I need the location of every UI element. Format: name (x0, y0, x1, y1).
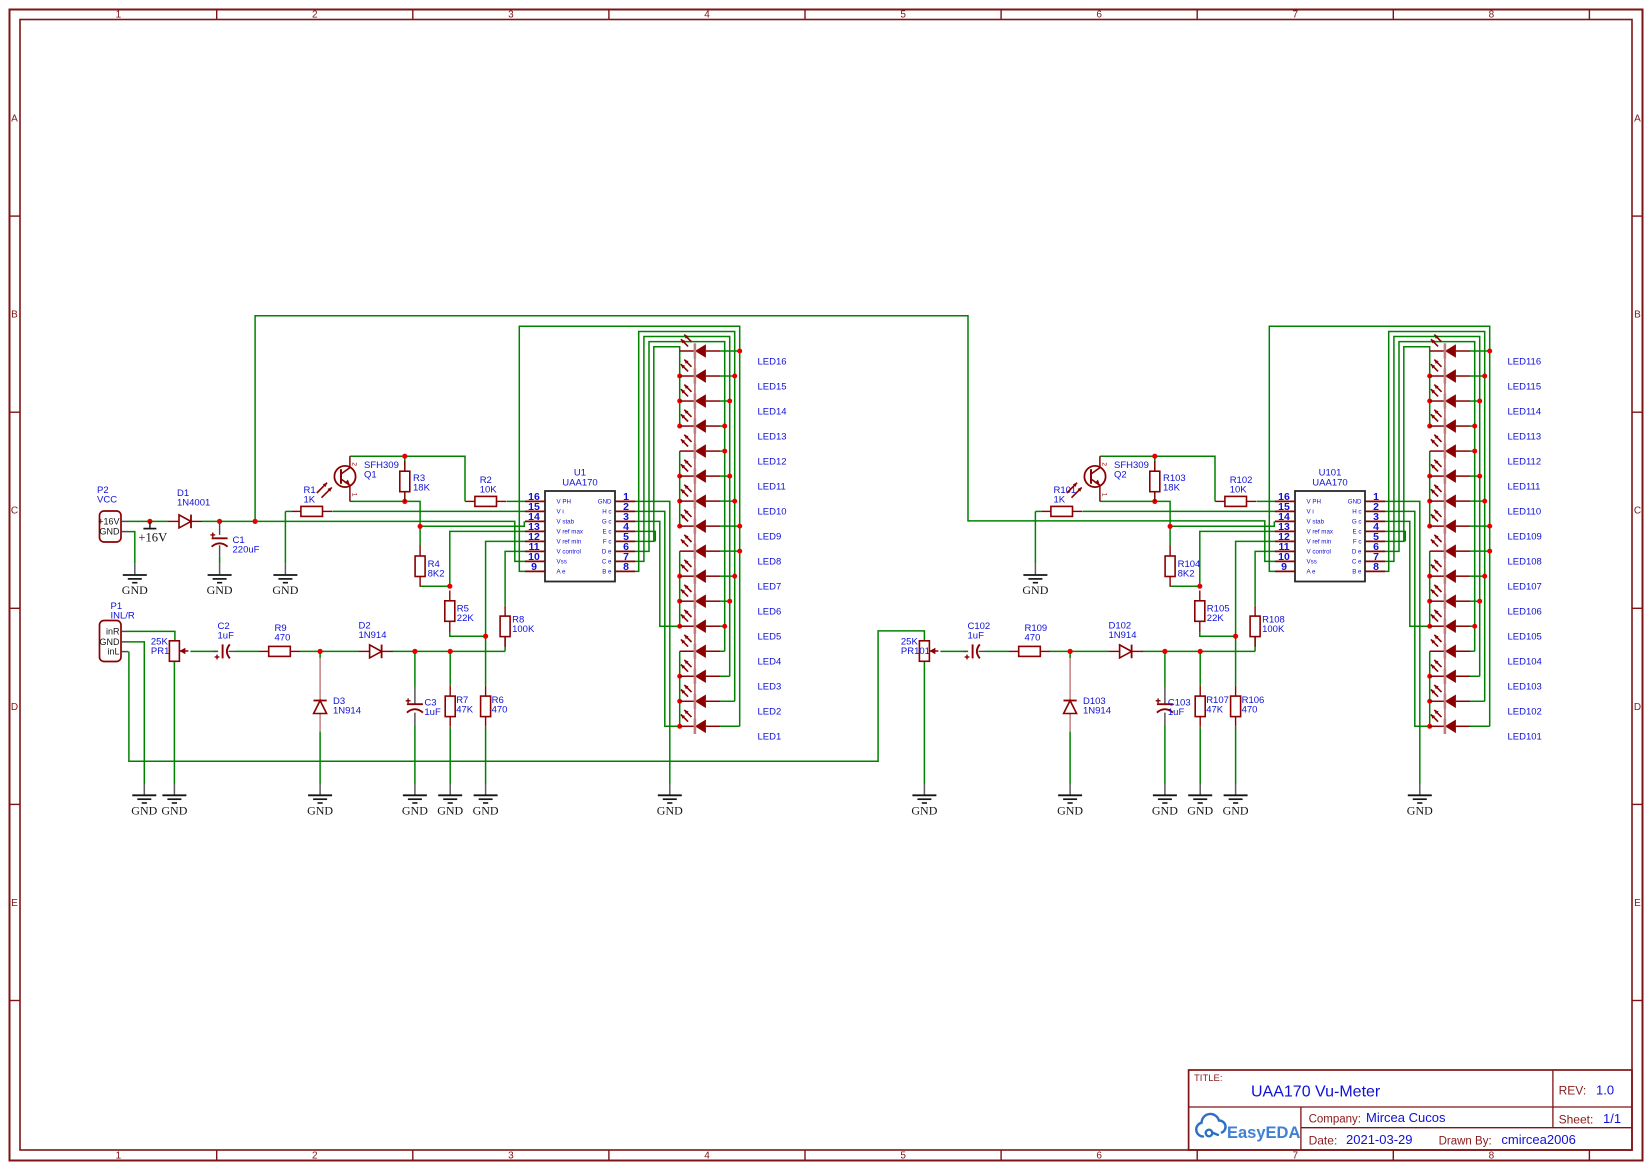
resistor R2 10K (465, 500, 475, 502)
ground (1224, 784, 1248, 803)
wire U pin 1 to ground (1385, 501, 1420, 784)
svg-text:V i: V i (1307, 509, 1314, 516)
svg-text:LED105: LED105 (1508, 632, 1542, 643)
wire to R4 top (419, 526, 421, 546)
LED LED111 (1430, 475, 1445, 477)
svg-text:4: 4 (704, 1151, 710, 1162)
svg-text:1uF: 1uF (968, 631, 985, 642)
svg-text:H c: H c (602, 509, 611, 516)
wire R8 bottom pin (504, 636, 506, 651)
svg-text:8: 8 (1373, 561, 1379, 573)
wire C3 to ground (414, 726, 416, 784)
svg-text:LED9: LED9 (758, 532, 782, 543)
LED chain LED1-LED16 (694, 343, 696, 734)
wire R105 bottom elbow (1200, 631, 1236, 636)
IC U101 UAA170 (1295, 491, 1365, 582)
wire P1 inL to PR101 (129, 631, 925, 761)
ground (438, 784, 462, 803)
ground (1188, 784, 1212, 803)
LED LED9 (680, 525, 695, 527)
connector P1 INL/R (100, 621, 122, 662)
wire C103 to ground (1164, 726, 1166, 784)
svg-text:1: 1 (116, 10, 122, 21)
svg-text:LED14: LED14 (758, 406, 787, 417)
wire to R104 top (1169, 526, 1171, 546)
svg-text:8: 8 (623, 561, 629, 573)
LED LED104 (1430, 650, 1445, 652)
svg-text:1N914: 1N914 (1083, 706, 1111, 717)
resistor R101 1K (1041, 510, 1051, 512)
svg-text:GND: GND (161, 804, 187, 818)
wire R1 left elbow (285, 510, 291, 512)
LED LED11 (680, 475, 695, 477)
wire U pin 3 drop (635, 521, 680, 626)
svg-text:D: D (11, 702, 18, 713)
svg-text:LED113: LED113 (1508, 431, 1542, 442)
svg-text:VCC: VCC (97, 495, 117, 506)
LED LED105 (1430, 625, 1445, 627)
ground (273, 564, 297, 583)
svg-text:V PH: V PH (557, 499, 571, 506)
ground (658, 784, 682, 803)
LED LED14 (680, 400, 695, 402)
wire C102 to R109 (985, 650, 1009, 652)
wire D102 to R108 bottom (1142, 650, 1256, 652)
svg-text:9: 9 (1281, 561, 1287, 573)
svg-text:1K: 1K (304, 495, 316, 506)
svg-text:LED1: LED1 (758, 732, 782, 743)
LED LED109 (1430, 525, 1445, 527)
svg-text:6: 6 (1096, 1151, 1102, 1162)
wire junction to D103 (1069, 651, 1071, 658)
svg-text:GND: GND (473, 804, 499, 818)
svg-text:LED116: LED116 (1508, 356, 1542, 367)
svg-text:C: C (11, 506, 18, 517)
svg-text:LED2: LED2 (758, 707, 782, 718)
LED LED114 (1430, 400, 1445, 402)
LED LED16 (680, 350, 695, 352)
svg-text:F c: F c (1353, 539, 1362, 546)
wire junction to R107 (1199, 651, 1201, 685)
wire U pin 6 bus D (635, 342, 725, 652)
wire R104 bottom elbow (1170, 585, 1200, 587)
LED LED101 (1430, 725, 1445, 727)
svg-text:GND: GND (131, 804, 157, 818)
wire R109 to D102 (1050, 650, 1109, 652)
svg-text:B: B (1634, 310, 1641, 321)
svg-text:GND: GND (1223, 804, 1249, 818)
svg-text:Q1: Q1 (364, 469, 377, 480)
LED LED108 (1430, 550, 1445, 552)
wire U pin 5 to LED cathode column (635, 347, 680, 542)
wire R6 to ground (485, 727, 487, 784)
LED LED1 (680, 725, 695, 727)
svg-text:1: 1 (351, 493, 358, 497)
svg-text:1K: 1K (1054, 495, 1066, 506)
LED LED106 (1430, 600, 1445, 602)
svg-text:G c: G c (602, 519, 612, 526)
LED LED107 (1430, 575, 1445, 577)
svg-text:A: A (11, 113, 18, 124)
svg-text:UAA170: UAA170 (1312, 478, 1347, 489)
svg-text:100K: 100K (512, 624, 535, 635)
capacitor C3 1uF (407, 703, 423, 705)
diode D2 1N914 (359, 650, 370, 652)
ground (403, 784, 427, 803)
wire R4/R5 junction to U pin 13 (450, 531, 525, 586)
wires LED anode stubs (720, 725, 740, 727)
LED LED12 (680, 450, 695, 452)
svg-text:LED115: LED115 (1508, 381, 1542, 392)
wire U pin 2 drop (1385, 511, 1430, 726)
wire R5/R6 junction to U pin 12 (1236, 541, 1275, 636)
svg-text:LED101: LED101 (1508, 732, 1542, 743)
wire junction to R7 (449, 651, 451, 685)
svg-text:LED111: LED111 (1508, 482, 1541, 493)
svg-text:LED112: LED112 (1508, 456, 1542, 467)
svg-text:1uF: 1uF (218, 631, 235, 642)
wire PR1 wiper to C2 (190, 650, 218, 652)
LED LED5 (680, 625, 695, 627)
ground (474, 784, 498, 803)
svg-text:7: 7 (1293, 10, 1299, 21)
wire D2 to R8 bottom (392, 650, 506, 652)
svg-text:LED106: LED106 (1508, 607, 1542, 618)
IC U1 UAA170 (545, 491, 615, 582)
LED LED115 (1430, 375, 1445, 377)
wire U pin 3 drop (1385, 521, 1430, 626)
svg-text:TITLE:: TITLE: (1194, 1073, 1223, 1084)
svg-text:H c: H c (1352, 509, 1361, 516)
svg-text:5: 5 (900, 10, 906, 21)
svg-text:8: 8 (1489, 10, 1495, 21)
svg-text:18K: 18K (413, 483, 431, 494)
capacitor C1 220uF (212, 537, 228, 539)
svg-text:UAA170 Vu-Meter: UAA170 Vu-Meter (1251, 1084, 1381, 1101)
LED LED116 (1430, 350, 1445, 352)
wire R4/R5 junction to U pin 13 (1200, 531, 1275, 586)
LED LED110 (1430, 500, 1445, 502)
wire U pin 9 bus A (519, 326, 739, 726)
LED LED102 (1430, 700, 1445, 702)
svg-text:1uF: 1uF (1168, 707, 1185, 718)
wire R2 to pin 16 (507, 500, 525, 502)
svg-text:470: 470 (275, 633, 291, 644)
svg-text:E: E (11, 898, 18, 909)
wire R7 to ground (449, 727, 451, 784)
svg-text:V i: V i (557, 509, 564, 516)
resistor R109 470 (1009, 650, 1019, 652)
svg-text:GND: GND (657, 804, 683, 818)
svg-text:100K: 100K (1262, 624, 1285, 635)
svg-text:1N4001: 1N4001 (177, 498, 210, 509)
svg-text:V control: V control (557, 549, 581, 556)
svg-text:LED103: LED103 (1508, 682, 1542, 693)
svg-text:V control: V control (1307, 549, 1331, 556)
svg-text:LED4: LED4 (758, 657, 782, 668)
svg-text:GND: GND (1022, 583, 1048, 597)
wire +16V rail to U1 pin 10 (202, 521, 525, 561)
svg-text:2: 2 (312, 10, 318, 21)
LED LED8 (680, 550, 695, 552)
wire LED column segment (1429, 651, 1431, 726)
resistor R5 22K (449, 591, 451, 601)
svg-text:LED12: LED12 (758, 456, 787, 467)
svg-text:4: 4 (704, 10, 710, 21)
svg-text:470: 470 (1242, 705, 1258, 716)
svg-text:GND: GND (1187, 804, 1213, 818)
wire P2 +16V to D1 (129, 520, 169, 522)
capacitor C2 1uF (222, 644, 224, 658)
svg-text:D: D (1634, 702, 1641, 713)
svg-text:LED7: LED7 (758, 582, 782, 593)
wire P2 GND (129, 532, 135, 564)
LED LED10 (680, 500, 695, 502)
svg-text:cmircea2006: cmircea2006 (1501, 1132, 1575, 1147)
wire junction to D3 (319, 651, 321, 658)
svg-text:G c: G c (1352, 519, 1362, 526)
wire to R106 top (1235, 636, 1237, 686)
svg-text:3: 3 (508, 1151, 514, 1162)
svg-text:B e: B e (602, 569, 612, 576)
resistor R104 8K2 (1169, 546, 1171, 556)
svg-text:LED6: LED6 (758, 607, 782, 618)
svg-text:Sheet:: Sheet: (1559, 1113, 1594, 1127)
svg-text:GND: GND (272, 583, 298, 597)
wire R101 left elbow (1035, 510, 1041, 512)
wire Q2 collector to R102 (1100, 456, 1215, 501)
svg-text:GND: GND (122, 583, 148, 597)
svg-text:PR101: PR101 (901, 646, 930, 657)
svg-text:8K2: 8K2 (428, 569, 445, 580)
svg-text:Q2: Q2 (1114, 469, 1127, 480)
svg-text:1uF: 1uF (424, 707, 441, 718)
wire Q1 collector to R2 (350, 456, 465, 501)
svg-text:LED114: LED114 (1508, 406, 1542, 417)
svg-text:Vss: Vss (1307, 559, 1317, 566)
svg-text:18K: 18K (1163, 483, 1181, 494)
svg-text:B e: B e (1352, 569, 1362, 576)
svg-text:LED108: LED108 (1508, 557, 1542, 568)
svg-text:470: 470 (492, 705, 508, 716)
svg-text:A e: A e (557, 569, 567, 576)
wire R9 to D2 (300, 650, 359, 652)
svg-text:D e: D e (1352, 549, 1362, 556)
svg-text:GND: GND (911, 804, 937, 818)
wire LED column segment (679, 451, 681, 526)
svg-text:+16V: +16V (98, 517, 119, 527)
svg-text:22K: 22K (1207, 613, 1225, 624)
svg-text:1: 1 (116, 1151, 122, 1162)
LED LED2 (680, 700, 695, 702)
svg-text:LED16: LED16 (758, 356, 787, 367)
wire U pin 4 stub (635, 531, 655, 541)
svg-text:8K2: 8K2 (1178, 569, 1195, 580)
svg-text:6: 6 (1096, 10, 1102, 21)
diode D103 1N914 (1064, 700, 1077, 702)
svg-text:LED13: LED13 (758, 431, 787, 442)
resistor R6 470 (485, 686, 487, 696)
wire R101 to ground (1034, 511, 1036, 563)
svg-text:inL: inL (107, 647, 119, 657)
EasyEDA logo (1196, 1114, 1225, 1137)
wire +16V feed to right channel U101 pin 10 (255, 316, 1275, 562)
wire U pin 11 to R8 (505, 551, 525, 605)
ground (1153, 784, 1177, 803)
resistor R9 470 (259, 650, 269, 652)
wire R1 to U pin 15 (333, 510, 526, 512)
resistor R107 47K (1199, 686, 1201, 696)
wire C2 to R9 (235, 650, 259, 652)
svg-text:2: 2 (312, 1151, 318, 1162)
wire LED column segment (679, 551, 681, 626)
diode D1 1N4001 (168, 520, 179, 522)
svg-text:E c: E c (603, 529, 612, 536)
svg-text:C e: C e (602, 559, 612, 566)
LED LED103 (1430, 675, 1445, 677)
net flag +16V (149, 521, 151, 528)
C1 top pin (219, 521, 221, 535)
ground (162, 784, 186, 803)
wire R101 to U pin 15 (1083, 510, 1276, 512)
wire junction to C3 (414, 651, 416, 686)
wire U pin 1 to ground (635, 501, 670, 784)
resistor R4 8K2 (419, 546, 421, 556)
LED LED15 (680, 375, 695, 377)
svg-text:E c: E c (1353, 529, 1362, 536)
ground (123, 564, 147, 583)
svg-text:Mircea Cucos: Mircea Cucos (1366, 1110, 1446, 1125)
svg-text:A e: A e (1307, 569, 1317, 576)
resistor R108 100K (1254, 606, 1256, 616)
wire R5/R6 junction to U pin 12 (486, 541, 525, 636)
svg-text:B: B (11, 310, 18, 321)
svg-text:LED102: LED102 (1508, 707, 1542, 718)
svg-text:F c: F c (603, 539, 612, 546)
svg-text:GND: GND (402, 804, 428, 818)
resistor R103 18K (1154, 461, 1156, 471)
wire PR101 bottom to ground (923, 661, 925, 784)
svg-text:2: 2 (1101, 462, 1108, 466)
svg-text:1.0: 1.0 (1596, 1083, 1614, 1098)
resistor R7 47K (449, 686, 451, 696)
svg-text:47K: 47K (456, 705, 474, 716)
C1 bottom pin (219, 545, 221, 556)
wire U pin 9 bus A (1269, 326, 1489, 726)
wire U pin 4 stub (1385, 531, 1405, 541)
ground (1023, 564, 1047, 583)
svg-text:9: 9 (531, 561, 537, 573)
svg-text:10K: 10K (480, 485, 498, 496)
wire P1 GND pin to ground (129, 642, 145, 784)
svg-text:LED104: LED104 (1508, 657, 1542, 668)
resistor R8 100K (504, 606, 506, 616)
svg-text:GND: GND (307, 804, 333, 818)
svg-text:LED107: LED107 (1508, 582, 1542, 593)
svg-text:INL/R: INL/R (111, 611, 135, 622)
resistor R105 22K (1199, 591, 1201, 601)
svg-text:1N914: 1N914 (333, 706, 361, 717)
svg-text:8: 8 (1489, 1151, 1495, 1162)
svg-text:PR1: PR1 (151, 646, 169, 657)
connector P2 VCC (100, 511, 122, 542)
svg-text:220uF: 220uF (233, 545, 260, 556)
ground (132, 784, 156, 803)
resistor R3 18K (404, 461, 406, 471)
wire D103 to ground (1069, 732, 1071, 784)
wire P1 inR to PR1 (129, 631, 175, 640)
LED LED13 (680, 425, 695, 427)
wire R103 bottom (1154, 491, 1156, 501)
svg-text:GND: GND (100, 527, 121, 537)
resistor R1 1K (291, 510, 301, 512)
title block (1189, 1070, 1632, 1150)
LED LED7 (680, 575, 695, 577)
wire R108 bottom pin (1254, 636, 1256, 651)
transistor Q1 SFH309 (334, 466, 355, 487)
svg-text:V ref max: V ref max (1307, 529, 1334, 536)
resistor R102 10K (1215, 500, 1225, 502)
svg-text:GND: GND (437, 804, 463, 818)
svg-text:C e: C e (1352, 559, 1362, 566)
wire PR1 bottom to ground (173, 661, 175, 784)
svg-text:inR: inR (106, 627, 120, 637)
svg-text:2: 2 (351, 462, 358, 466)
wire U pin 11 to R108 (1255, 551, 1275, 605)
svg-text:7: 7 (1293, 1151, 1299, 1162)
svg-text:1N914: 1N914 (359, 630, 387, 641)
svg-text:LED109: LED109 (1508, 532, 1542, 543)
wire LED column segment (679, 651, 681, 726)
svg-text:LED15: LED15 (758, 381, 787, 392)
svg-text:V stab: V stab (1307, 519, 1325, 526)
LED LED112 (1430, 450, 1445, 452)
svg-text:REV:: REV: (1559, 1084, 1587, 1098)
wire U pin 6 bus D (1385, 342, 1475, 652)
wire U pin 2 drop (635, 511, 680, 726)
svg-text:GND: GND (1057, 804, 1083, 818)
resistor R106 470 (1235, 686, 1237, 696)
wire PR101 wiper to C102 (940, 650, 968, 652)
svg-text:A: A (1634, 113, 1641, 124)
wire R102 to pin 16 (1257, 500, 1275, 502)
svg-text:V ref max: V ref max (557, 529, 584, 536)
svg-text:EasyEDA: EasyEDA (1227, 1124, 1300, 1142)
junction dots (147, 519, 152, 524)
svg-text:C: C (1634, 506, 1641, 517)
wire R5 bottom elbow (450, 631, 486, 636)
svg-text:3: 3 (508, 10, 514, 21)
transistor Q2 SFH309 (1084, 466, 1105, 487)
wire to R6 top (485, 636, 487, 686)
svg-text:5: 5 (900, 1151, 906, 1162)
wire junction to C103 (1164, 651, 1166, 686)
LED LED113 (1430, 425, 1445, 427)
svg-text:470: 470 (1025, 633, 1041, 644)
wires LED anode stubs (1470, 725, 1490, 727)
wire Q1 emitter / R3 to U pin 14 (350, 501, 524, 526)
svg-text:LED110: LED110 (1508, 507, 1542, 518)
svg-text:1N914: 1N914 (1109, 630, 1137, 641)
wire R3 bottom (404, 491, 406, 501)
svg-text:1: 1 (1101, 493, 1108, 497)
svg-text:GND: GND (598, 499, 612, 506)
svg-text:GND: GND (1407, 804, 1433, 818)
wire R107 to ground (1199, 727, 1201, 784)
ground (208, 564, 232, 583)
wire C1 to ground (219, 556, 221, 563)
svg-text:LED5: LED5 (758, 632, 782, 643)
